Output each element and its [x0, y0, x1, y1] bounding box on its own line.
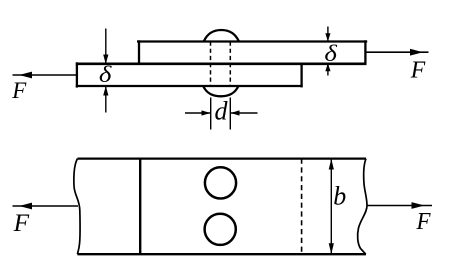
rivet hole dashed line right: [229, 42, 231, 87]
force F right (bottom view) line: [367, 202, 432, 209]
bottom plate bottom edge: [77, 253, 366, 255]
lower plate: [76, 62, 303, 87]
rivet hole dashed line left: [210, 42, 212, 87]
plates interface line: [76, 62, 367, 65]
overlap edge line: [139, 159, 141, 255]
svg-text:b: b: [333, 182, 346, 211]
rivet hole circle top: [205, 167, 236, 198]
dimension delta left: [103, 29, 108, 113]
svg-text:δ: δ: [324, 41, 337, 66]
dimension d extension line right: [229, 98, 231, 130]
dimension d right arrow: [231, 110, 258, 115]
svg-text:F: F: [416, 209, 431, 235]
svg-text:F: F: [410, 57, 426, 83]
hidden plate end dashed line: [301, 159, 303, 255]
bottom plate top edge: [78, 157, 367, 159]
right break line: [358, 159, 367, 255]
dimension delta right: [325, 27, 330, 76]
rivet hole circle bottom: [205, 214, 236, 245]
dimension d extension line left: [210, 98, 212, 130]
svg-text:F: F: [11, 78, 27, 103]
dimension b line: [329, 159, 334, 255]
rivet head top: [204, 30, 239, 41]
force F right (top view) line: [365, 49, 428, 56]
force F left (bottom view) line: [13, 203, 79, 210]
left break line: [74, 159, 80, 255]
svg-text:d: d: [215, 97, 229, 126]
svg-text:δ: δ: [99, 62, 112, 87]
dimension d left arrow: [185, 110, 211, 115]
upper plate: [137, 40, 367, 64]
rivet head bottom: [203, 86, 238, 96]
svg-text:F: F: [13, 210, 30, 237]
force F left (top view) line: [13, 72, 77, 79]
